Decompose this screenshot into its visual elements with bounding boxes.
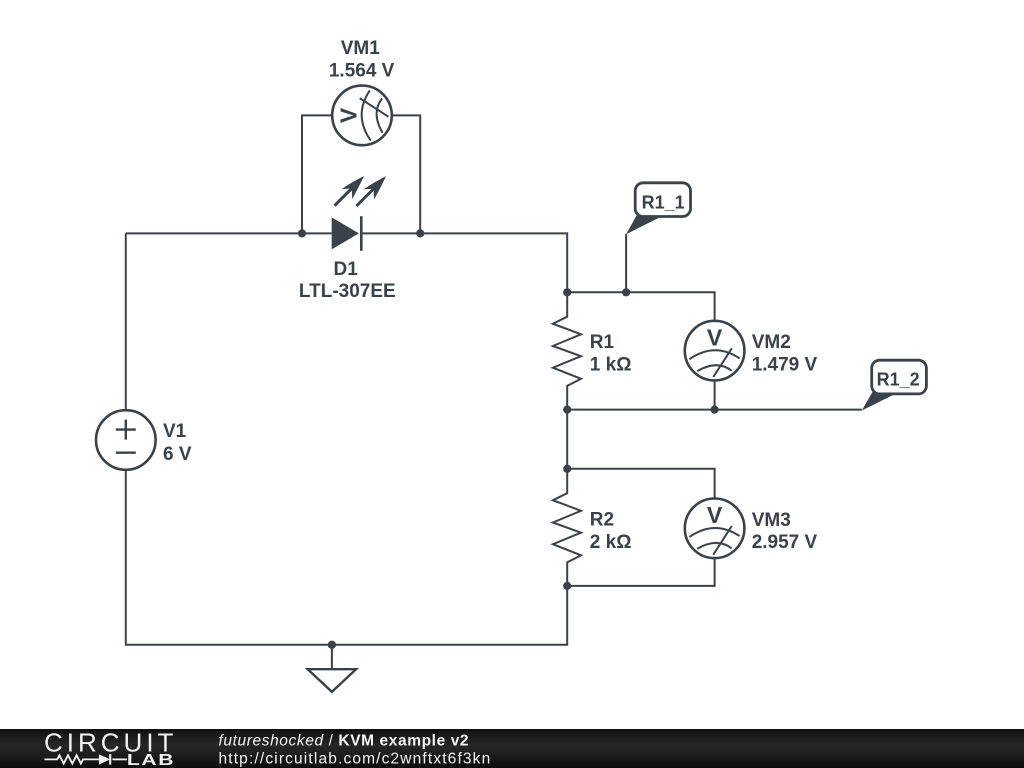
svg-text:R1: R1 (590, 332, 615, 353)
svg-text:futureshocked / KVM example v2: futureshocked / KVM example v2 (219, 732, 470, 749)
voltmeter VM3 (685, 499, 745, 559)
junction dot at R1 top node (563, 288, 571, 296)
wire VM1 right leg (392, 115, 420, 233)
svg-text:D1: D1 (334, 259, 359, 280)
junction dot at VM2 bottom (711, 406, 719, 414)
wire R1 top node to VM2 top (567, 292, 714, 321)
node flag R1_1 (626, 183, 690, 234)
wire R2 bottom node to VM3 bottom (567, 558, 714, 586)
svg-text:V: V (707, 324, 723, 350)
label R1 1 kOhm (590, 332, 632, 375)
ground (308, 645, 356, 692)
wire R1 bottom node down to R2 top node (566, 410, 568, 469)
svg-text:LAB: LAB (127, 751, 175, 768)
svg-text:http://circuitlab.com/c2wnftxt: http://circuitlab.com/c2wnftxt6f3kn (219, 750, 492, 767)
label VM3 2.957 V (752, 510, 818, 553)
wire R1 bottom row to R1_2 flag tip (567, 409, 862, 411)
junction dot at R1 bottom node (563, 406, 571, 414)
svg-text:R1_2: R1_2 (877, 370, 920, 390)
svg-text:1 kΩ: 1 kΩ (590, 354, 632, 375)
wire VM2 bottom stub (714, 380, 716, 410)
svg-text:2.957 V: 2.957 V (752, 532, 818, 553)
junction dot at R2 top node (563, 465, 571, 473)
junction dot at R1_1 stem (622, 288, 630, 296)
resistor R1 (553, 292, 581, 409)
wire R1_1 flag stem (625, 234, 627, 292)
label VM1 1.564 V (329, 38, 395, 82)
svg-text:R1_1: R1_1 (642, 193, 685, 213)
svg-text:VM2: VM2 (752, 332, 791, 353)
voltmeter VM2 (685, 321, 745, 381)
wire V1 bottom to bottom-left corner and bottom rail to lower right corner (126, 470, 567, 645)
diode D1 (LED) (332, 176, 386, 251)
svg-text:1.564 V: 1.564 V (329, 61, 395, 82)
svg-text:1.479 V: 1.479 V (752, 354, 818, 375)
svg-text:VM1: VM1 (341, 38, 381, 59)
resistor R2 (553, 469, 581, 586)
junction dot at ground (328, 641, 336, 649)
CircuitLab logo diode triangle (99, 754, 110, 764)
label R2 2 kOhm (590, 510, 632, 554)
label D1 LTL-307EE (299, 259, 396, 302)
svg-text:LTL-307EE: LTL-307EE (299, 281, 396, 302)
svg-text:V: V (707, 502, 723, 528)
voltmeter VM1 (rotated) (332, 86, 392, 146)
node flag R1_2 (862, 360, 927, 410)
CircuitLab logo resistor-diode line (44, 754, 127, 764)
voltage source V1 (96, 410, 156, 470)
wire from D1 cathode to right corner and down to R1 top node (362, 233, 567, 292)
svg-text:V1: V1 (163, 421, 187, 442)
wire R2 top node to VM3 top (567, 469, 714, 499)
wire top rail from left corner to D1 anode (126, 232, 332, 234)
junction dot at D1 cathode (416, 229, 424, 237)
junction dot at D1 anode (298, 229, 306, 237)
svg-text:VM3: VM3 (752, 510, 791, 531)
wire left rail down to V1 (125, 233, 127, 410)
footer bar (0, 729, 1024, 768)
svg-text:V: V (336, 107, 362, 123)
svg-text:R2: R2 (590, 510, 614, 531)
junction dot at R2 bottom node (563, 582, 571, 590)
wire VM1 left leg (302, 115, 332, 233)
svg-text:2 kΩ: 2 kΩ (590, 532, 632, 553)
label V1 6 V (163, 421, 192, 465)
svg-text:6 V: 6 V (163, 444, 192, 465)
label VM2 1.479 V (752, 332, 818, 376)
